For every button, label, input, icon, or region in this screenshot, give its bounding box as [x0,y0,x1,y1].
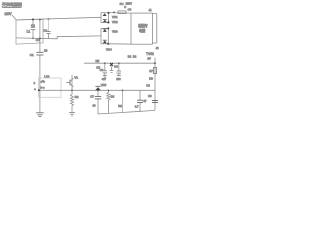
svg-text:C6: C6 [100,68,104,72]
right column x155 [154,58,156,111]
svg-text:220V: 220V [5,12,13,16]
capacitor C7 [90,90,101,114]
svg-text:1B: 1B [44,49,48,53]
svg-text:a*b: a*b [41,79,46,83]
svg-text:TV02: TV02 [146,52,154,56]
svg-text:FU: FU [120,2,124,6]
resistor R8 [70,90,78,113]
capacitor C8 x118.8 [116,62,121,81]
bridge rectifier upper cell [101,13,109,23]
fuse FU [118,11,126,14]
node rail right [154,62,156,64]
svg-text:V1: V1 [74,76,78,80]
svg-text:C8: C8 [146,84,150,88]
svg-text:R8: R8 [118,104,122,108]
svg-text:开关电源图: 开关电源图 [2,1,22,7]
svg-text:VD2: VD2 [112,20,118,24]
svg-text:3V: 3V [148,57,151,61]
wire DC+ to fuse [109,12,131,15]
resistor R7 on column [149,68,156,81]
bottom rail [98,110,155,114]
svg-text:R7: R7 [149,69,153,73]
node fuse left [113,12,115,14]
wire drop x40 in box [32,19,41,44]
transistor V1 [67,75,79,90]
node rail left [38,89,40,91]
svg-text:47: 47 [143,99,147,103]
wire x122 drop [122,90,124,112]
diode VD5 [95,83,106,91]
wire bottom AC line [16,36,101,39]
wire input diagonal [12,15,16,20]
capacitor C2 [43,18,50,39]
capacitor C9 x140 [137,90,147,112]
node bridge+ [108,12,110,14]
diode VD4 [103,40,107,43]
svg-text:L1: L1 [27,30,31,34]
diode VD2 [103,20,107,23]
wire x40 down to ground [39,55,41,113]
svg-text:C4: C4 [36,38,40,42]
wire top AC line [16,17,101,20]
svg-text:C4: C4 [128,8,132,12]
resistor R6 [107,90,115,114]
svg-text:C7: C7 [90,95,94,99]
title text [2,1,22,7]
svg-text:4.7: 4.7 [135,105,139,109]
wire DC- to module [108,43,131,45]
svg-text:4n7: 4n7 [102,77,107,81]
node bridge- [107,43,109,45]
svg-text:电源: 电源 [139,28,146,33]
svg-text:J1: J1 [149,8,152,12]
wire feedback loop right [152,14,156,43]
capacitor C3 [31,18,35,38]
diode VD3 [103,29,107,32]
svg-text:D6: D6 [114,64,118,68]
svg-text:C1: C1 [30,53,34,57]
svg-text:VD3: VD3 [112,30,118,34]
svg-text:新型开: 新型开 [138,23,148,28]
capacitor C1 [30,44,48,57]
zener D6 x111.5 [110,63,119,72]
svg-text:C3: C3 [31,24,35,28]
node bridge ac1 [107,21,109,23]
svg-text:250V: 250V [126,2,132,6]
svg-text:J2: J2 [156,46,159,50]
diode VD1 [103,13,107,16]
capacitor C10 on column [148,94,158,103]
svg-text:VD1: VD1 [112,15,118,19]
ground under R8 [69,112,75,116]
svg-text:R5: R5 [96,59,100,63]
capacitor C6 x104.8 [100,62,107,81]
svg-text:b-c: b-c [41,85,45,89]
svg-text:R2: R2 [133,55,137,59]
ground [36,113,44,117]
svg-text:103: 103 [116,77,121,81]
control sub box [39,78,62,97]
svg-text:R6: R6 [111,95,115,99]
svg-text:R9: R9 [149,76,153,80]
svg-text:C: C [124,6,126,9]
svg-text:VD4: VD4 [106,47,112,51]
rail lower y90 [40,89,155,91]
svg-text:VD5: VD5 [101,83,107,87]
rail mid y63 [84,62,155,64]
svg-text:R1: R1 [128,55,132,59]
power module box [131,13,152,44]
bridge rectifier lower cell [101,28,108,43]
svg-text:C2: C2 [43,29,47,33]
svg-text:R8: R8 [75,95,79,99]
EMI filter box [16,19,43,44]
svg-text:C9: C9 [148,94,152,98]
node bridge ac2 [107,27,109,29]
